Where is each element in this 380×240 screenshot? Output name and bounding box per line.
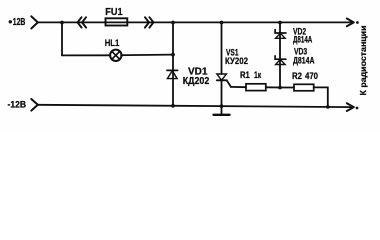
wire bottom rail	[38, 105, 352, 107]
lamp HL1	[110, 50, 121, 61]
junction bottom rail VS1	[220, 104, 224, 108]
node -12V input connector	[31, 99, 38, 111]
svg-text:1к: 1к	[254, 70, 262, 80]
svg-text:470: 470	[305, 71, 318, 81]
svg-text:-12В: -12В	[8, 100, 27, 110]
svg-text:R2: R2	[292, 71, 302, 81]
wire HL1 branch left	[62, 54, 110, 56]
svg-text:12В: 12В	[13, 17, 26, 28]
svg-text:HL1: HL1	[105, 38, 120, 49]
svg-text:FU1: FU1	[105, 7, 123, 18]
svg-text:Д814А: Д814А	[293, 34, 313, 44]
arrow top rail output	[347, 19, 354, 27]
plus dot of +12V	[9, 20, 12, 23]
wire HL1 branch vertical from top rail	[61, 23, 63, 56]
junction top rail VD2	[278, 21, 282, 25]
resistor R2	[294, 84, 314, 91]
wire VD1 vertical	[172, 23, 174, 106]
wire R2 right and down to bottom rail	[314, 87, 328, 107]
ground	[214, 106, 230, 115]
junction gate node	[278, 86, 282, 90]
node +12V input connector	[31, 16, 38, 28]
junction bottom rail VD1	[171, 104, 175, 108]
wire top rail	[38, 21, 352, 23]
svg-text:Д814А: Д814А	[293, 56, 315, 66]
svg-text:КД202: КД202	[183, 76, 210, 87]
wire node to R2	[280, 87, 294, 89]
svg-text:КУ202: КУ202	[225, 56, 248, 67]
junction bottom rail R2	[326, 105, 330, 109]
wire VS1 cathode vertical	[221, 80, 223, 106]
arrow bottom rail output	[347, 103, 354, 111]
wire gate to R1	[231, 86, 246, 88]
connector contacts left of fuse	[78, 17, 87, 27]
junction top rail VD1	[171, 21, 175, 25]
wire R1 to node	[266, 86, 280, 88]
zener VD2	[275, 30, 286, 39]
junction top rail at HL1 branch	[60, 21, 64, 25]
diode VD1	[167, 70, 178, 78]
wire HL1 branch right	[121, 54, 173, 57]
junction top rail VS1	[220, 21, 224, 25]
fuse FU1	[106, 18, 128, 25]
wire zener chain vertical	[279, 23, 281, 88]
zener VD3	[275, 56, 286, 65]
svg-text:R1: R1	[240, 70, 250, 80]
svg-text:К радиостанции: К радиостанции	[359, 25, 368, 95]
wire VS1 anode vertical	[221, 23, 223, 75]
connector contacts right of fuse	[145, 17, 154, 27]
thyristor VS1	[217, 74, 231, 87]
resistor R1	[246, 84, 266, 91]
junction HL1 right	[171, 53, 175, 57]
